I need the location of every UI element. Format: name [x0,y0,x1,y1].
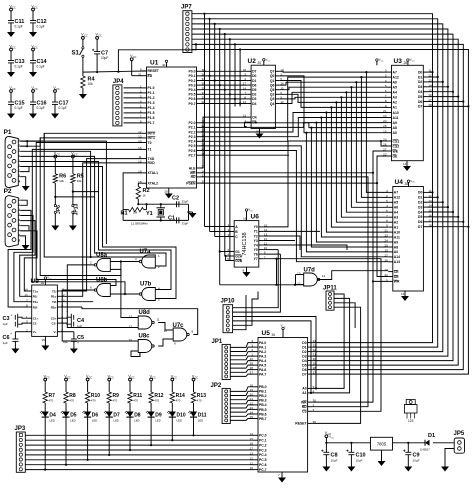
svg-text:P0.4: P0.4 [189,88,196,92]
svg-text:D6: D6 [252,83,256,87]
svg-text:Q7: Q7 [270,70,275,74]
svg-text:31: 31 [138,72,142,76]
wire [428,226,469,228]
wire [230,361,253,364]
pin D2 U2 [247,93,252,95]
svg-text:P0.3: P0.3 [189,83,196,87]
resistor R9 [108,378,111,381]
pin Y0 U6 [259,226,264,228]
pin A3 U4 [388,216,393,218]
svg-text:Y1: Y1 [254,230,258,234]
pin XTAL1 U1 [142,172,147,174]
svg-text:D5: D5 [418,95,422,99]
svg-text:LED: LED [70,419,75,423]
pin PB.6 U5 [254,413,259,415]
svg-text:470: 470 [49,399,54,403]
svg-text:D4: D4 [252,102,256,106]
wire OE U2 [245,122,247,126]
ground pin 8 U6 [246,267,248,271]
svg-text:LED: LED [113,419,118,423]
pin A9 U3 [387,122,392,124]
svg-text:Q5: Q5 [270,88,275,92]
pin P0.5 U1 [197,93,202,95]
svg-text:28: 28 [405,182,409,186]
pin CS U5 [308,410,313,412]
svg-text:123: 123 [408,419,414,423]
pin Q4 U2 [275,103,280,105]
svg-text:A6: A6 [393,81,397,85]
pin OE U4 [388,276,393,278]
svg-text:U5: U5 [262,330,271,337]
svg-text:0.1µF: 0.1µF [59,106,67,110]
svg-text:Y0: Y0 [254,225,258,229]
pin A1 U3 [387,106,392,108]
pin D1 U4 [423,196,428,198]
capacitor C12 [32,8,35,11]
resistor R14 [171,378,174,381]
svg-text:LED: LED [49,419,54,423]
pin PA.7 U5 [254,373,259,375]
svg-text:P0.5: P0.5 [189,93,196,97]
svg-text:P1: P1 [4,129,12,136]
wire [27,141,106,244]
pin CS1 U3 [387,140,392,142]
wire data bus D5 [192,39,458,365]
wire [14,216,33,302]
svg-text:C2-: C2- [52,321,57,325]
svg-text:C1+: C1+ [33,317,39,321]
pin D1 U5 [308,346,313,348]
svg-text:G1: G1 [235,250,240,254]
pin D3 U4 [423,206,428,208]
pin OE U2 [247,121,252,123]
wire [428,91,453,93]
svg-text:CC: CC [110,376,114,379]
svg-text:A4: A4 [394,211,398,215]
svg-text:XTAL1: XTAL1 [148,171,159,175]
pin P2.6 U1 [197,150,202,152]
pin P2.2 U1 [197,131,202,133]
svg-text:D2: D2 [418,201,422,205]
resistor R4 [82,72,84,76]
svg-text:R1i: R1i [33,295,38,299]
wire U8c out to U7c in9 [158,339,173,346]
pin R2o U9 [57,306,61,308]
wire Y stubs [263,230,320,232]
svg-text:D5: D5 [252,88,256,92]
mcu U1 [147,67,197,188]
svg-text:PA.5: PA.5 [259,363,266,367]
pin TXD U1 [142,158,147,160]
svg-text:D0: D0 [252,74,256,78]
wire power rail [326,442,370,444]
wire PC bus 1 [25,439,253,441]
wire [230,370,253,373]
pin D5 U4 [423,216,428,218]
wire address drop 2 [356,82,388,202]
svg-text:C2+: C2+ [51,317,57,321]
svg-text:470: 470 [69,399,74,403]
svg-text:R2o: R2o [51,305,57,309]
svg-text:1N5817: 1N5817 [420,448,430,452]
wire [20,151,155,257]
pin Y2 U6 [259,235,264,237]
resistor R2 [138,183,142,186]
ground [32,110,34,114]
pin A4 U3 [387,91,392,93]
svg-text:D1: D1 [428,433,435,439]
svg-text:U4: U4 [395,179,404,186]
svg-text:A9: A9 [393,121,397,125]
wire [124,107,142,109]
svg-text:+: + [11,314,13,318]
pin A1 U5 [308,392,313,394]
svg-text:Y3: Y3 [254,239,258,243]
svg-text:U8b: U8b [96,278,108,284]
pin A12 U3 [387,76,392,78]
wire address drop 6 [336,102,388,222]
pin A2 U4 [388,221,393,223]
wire [8,210,31,307]
svg-text:CC: CC [57,153,61,156]
pin C1+ U9 [28,317,32,319]
svg-text:U2: U2 [248,58,257,65]
svg-text:0.1µF: 0.1µF [37,25,45,29]
ground [14,347,16,349]
svg-text:CK: CK [252,115,257,119]
wire [428,216,458,218]
svg-text:11: 11 [322,274,325,278]
wire P0.0 to U2 [201,70,247,72]
pin D4 U2 [247,103,252,105]
crystal Y1 [138,203,188,205]
svg-text:470: 470 [91,399,96,403]
wire address line 11 [201,123,387,128]
svg-text:P2: P2 [4,188,12,195]
wire U8c in9 [131,351,140,357]
wire U7c out [82,307,198,335]
svg-text:JP13: JP13 [73,203,79,215]
capacitor C10 [350,443,352,453]
wire [20,133,44,141]
pin PC.3 U5 [254,449,259,451]
power VCC U9 [44,277,46,279]
svg-text:JP7: JP7 [181,5,192,11]
svg-text:D5: D5 [418,215,422,219]
wire data drop D3 [219,29,221,285]
pin PB.2 U5 [254,395,259,397]
pin PB.4 U5 [254,404,259,406]
pin A6 U3 [387,81,392,83]
svg-text:+: + [10,332,12,336]
pin Q3 U2 [275,98,280,100]
svg-text:A12: A12 [393,75,399,79]
wire address A14 [201,146,388,257]
wire [118,44,196,71]
wire U7d out [317,271,388,280]
svg-text:P2.3: P2.3 [189,135,196,139]
wire TXD [61,159,142,291]
pin P2.3 U1 [197,136,202,138]
pin EA U1 [142,75,147,77]
svg-text:28: 28 [404,61,408,65]
wire data drop D6 [234,44,236,106]
svg-text:A5: A5 [393,86,397,90]
wire JP10 pin5 [233,292,258,326]
pin RD U5 [308,406,313,408]
wire address line 4 [280,92,387,103]
svg-text:D3: D3 [302,354,306,358]
svg-text:13: 13 [24,293,28,297]
led D8 [126,412,133,418]
pin A10 U3 [387,112,392,114]
svg-text:470: 470 [197,399,202,403]
wire latch cross 1 [121,262,138,318]
wire P2.7 stub [201,154,289,156]
svg-text:14: 14 [401,292,405,296]
power VCC U4 [407,180,409,182]
resistor R11 [129,378,132,381]
connector JP2 [222,388,230,423]
svg-text:A0: A0 [394,250,398,254]
wire RD [201,177,368,407]
pin P2.7 U1 [197,154,202,156]
pin Y4 U6 [259,244,264,246]
pin RXD U1 [142,162,147,164]
pin G2A U6 [230,255,235,257]
pin A5 U3 [387,86,392,88]
svg-text:20: 20 [165,190,169,194]
wire [230,419,253,421]
wire [230,352,253,356]
nand gate U7b [142,288,156,301]
ground [192,212,194,213]
svg-text:Q2: Q2 [270,93,275,97]
wire address drop 12 [306,133,388,252]
wire address line 8 [201,113,387,133]
wire JP11 pin2 to U5 A1 [311,325,350,393]
svg-text:Q3: Q3 [270,97,275,101]
svg-text:P2.5: P2.5 [189,144,196,148]
svg-text:A9: A9 [394,240,398,244]
pin A4 U4 [388,211,393,213]
wire [334,307,361,331]
svg-text:CC: CC [84,35,88,38]
wire [230,347,253,351]
wire [20,156,166,266]
wire address drop 8 [326,113,388,233]
pin CK U2 [247,116,252,118]
svg-text:JP1: JP1 [212,339,223,345]
wire WR to U5 [372,280,374,282]
pin D2 U5 [308,351,313,353]
svg-text:A0: A0 [393,131,397,135]
pin D1 U2 [247,80,252,82]
pin Q2 U2 [275,93,280,95]
svg-text:P2.0: P2.0 [189,121,196,125]
wire [124,92,142,94]
wire [428,191,433,193]
ground [73,347,75,349]
svg-text:CC: CC [12,6,16,9]
wire [428,81,443,83]
led D4 [42,412,49,418]
pin D2 U4 [423,201,428,203]
jumper JP13 [72,205,74,207]
pin WR U4 [388,280,393,282]
wire RXD [61,163,142,296]
svg-text:10µF: 10µF [356,459,363,463]
capacitor C2 [176,201,178,207]
svg-text:U7c: U7c [173,323,185,329]
svg-text:JP11: JP11 [323,286,337,292]
wire U8d out to U7c in10 [158,323,173,331]
pin D6 U4 [423,221,428,223]
pin P1.5 U1 [142,112,147,114]
svg-text:LED: LED [92,419,97,423]
svg-text:PC.5: PC.5 [259,458,267,462]
connector JP10 [223,305,233,333]
pin C2- U9 [57,322,61,324]
svg-text:A6: A6 [394,206,398,210]
pin PC.2 U5 [254,444,259,446]
svg-text:A3: A3 [393,96,397,100]
pin PA.6 U5 [254,369,259,371]
pin A5 U4 [388,201,393,203]
svg-text:+: + [77,341,79,345]
memory U3 [392,65,424,160]
ground [54,110,56,114]
pin D1 U3 [423,76,428,78]
wire PC bus 5 [25,459,253,461]
pin A8 U4 [388,246,393,248]
resistor R12 [150,378,153,381]
svg-text:XTAL2: XTAL2 [148,182,159,186]
capacitor C11 [10,8,13,11]
wire data drop D0 [204,14,206,227]
svg-text:C1-: C1- [33,321,38,325]
wire [334,294,344,322]
pin INT1 U1 [142,137,147,139]
pin PC.6 U5 [254,464,259,466]
wire address drop 7 [331,107,388,227]
svg-text:P2.2: P2.2 [189,130,196,134]
pin PB.7 U5 [254,418,259,420]
wire Y7 to U5 CS [263,259,381,412]
connector JP3 [16,432,25,472]
wire WR to U3 WE [373,151,387,173]
wire JP10 pin3 to U5 A0 [233,317,316,389]
wire [428,196,438,198]
nand gate U8c [138,340,152,353]
wire [230,409,253,412]
wire [20,221,35,297]
pin A11 U3 [387,117,392,119]
svg-text:CC: CC [56,88,60,91]
pin P0.2 U1 [197,80,202,82]
wire Y6 to JP10 pin2 [233,254,281,312]
svg-text:JP4: JP4 [113,79,124,85]
pin WR U5 [308,401,313,403]
wire [428,76,438,78]
svg-text:P0.2: P0.2 [189,79,196,83]
svg-text:P1.4: P1.4 [148,106,155,110]
svg-text:PA.3: PA.3 [259,354,266,358]
svg-text:D7: D7 [418,225,422,229]
svg-text:D1: D1 [418,75,422,79]
nand gate U8b [97,284,111,297]
pin PB.0 U5 [254,386,259,388]
wire JP11 pin1 to U5 A0 [316,322,344,388]
resistor R8 [65,378,68,381]
capacitor C8 [325,443,327,453]
wire [124,102,142,104]
pin P1.2 U1 [142,97,147,99]
wire address line 2 [280,82,387,85]
regulator 7805 [371,437,393,450]
svg-text:D1: D1 [252,79,256,83]
wire [428,96,458,98]
wire Y5 to JP10 pin1 [233,250,279,308]
wire U8b out to U8c in10 [62,290,138,341]
pin G1 U6 [230,251,235,253]
svg-text:D7: D7 [252,70,256,74]
svg-text:U8d: U8d [139,310,151,316]
wire U7a out to U8a in1 [110,261,139,263]
pin Y3 U6 [259,240,264,242]
svg-text:A2: A2 [394,221,398,225]
svg-text:PB.2: PB.2 [259,394,267,398]
svg-text:D3: D3 [252,97,256,101]
svg-text:V+: V+ [33,330,37,334]
node RESET [83,71,147,72]
wire address drop 1 [361,77,388,197]
svg-text:D0: D0 [418,191,422,195]
wire P0.4 to U2 [201,89,247,91]
svg-text:LED: LED [134,419,139,423]
svg-text:CC: CC [67,376,71,379]
svg-text:40: 40 [162,63,166,67]
svg-text:D0: D0 [302,341,306,345]
svg-text:10µF: 10µF [101,56,108,60]
pin D0 U5 [308,342,313,344]
resistor R6 [54,155,57,158]
wire [334,298,350,325]
pin B U6 [230,231,235,233]
wire P0.6 to U2 [201,98,247,100]
latch U2 [251,65,275,128]
svg-text:D2: D2 [302,350,306,354]
svg-text:P1.7: P1.7 [148,121,155,125]
diode D1 [425,440,430,446]
svg-text:20: 20 [384,268,388,272]
power VCC U6 [245,209,247,211]
svg-text:T0: T0 [148,141,152,145]
svg-text:CC: CC [89,376,93,379]
svg-text:D2: D2 [418,80,422,84]
wire [20,231,37,291]
wire JP10 pin4 to U5 A1 [233,321,313,393]
svg-text:Y4: Y4 [254,243,258,247]
pin P1.1 U1 [142,92,147,94]
svg-text:20: 20 [258,61,262,65]
ground [444,458,446,467]
svg-text:T1o: T1o [33,289,39,293]
pin P2.5 U1 [197,145,202,147]
svg-text:P0.6: P0.6 [189,97,196,101]
pin A7 U4 [388,191,393,193]
pin V+ U9 [28,331,32,333]
